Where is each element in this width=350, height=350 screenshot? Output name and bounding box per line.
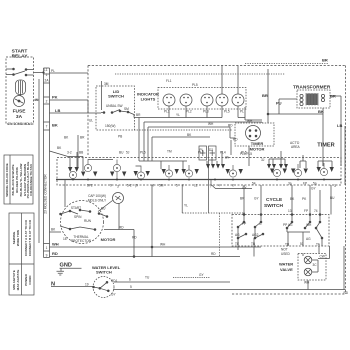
svg-text:TU: TU: [145, 276, 150, 280]
svg-text:74: 74: [314, 209, 318, 213]
svg-text:CORD: CORD: [28, 275, 32, 285]
svg-text:2A: 2A: [45, 79, 50, 83]
svg-text:GY: GY: [199, 273, 204, 277]
svg-text:L1: L1: [44, 68, 48, 72]
svg-text:BK: BK: [64, 136, 69, 140]
svg-text:USED: USED: [281, 252, 291, 256]
svg-text:UL: UL: [89, 119, 93, 123]
svg-text:RELAY: RELAY: [12, 54, 29, 60]
svg-text:WIRING COLOR CODE: WIRING COLOR CODE: [5, 163, 9, 196]
svg-text:RUN: RUN: [84, 219, 92, 223]
svg-text:SPIN: SPIN: [74, 215, 82, 219]
svg-text:3-2: 3-2: [67, 151, 72, 155]
svg-text:MDLS ONLY: MDLS ONLY: [88, 199, 107, 203]
svg-text:OR-ORANGE TN-TAN: OR-ORANGE TN-TAN: [29, 164, 33, 196]
svg-text:RD: RD: [211, 252, 216, 256]
svg-text:7: 7: [46, 125, 48, 129]
svg-text:PL: PL: [240, 110, 244, 114]
svg-text:N: N: [51, 282, 55, 288]
svg-text:PL5: PL5: [224, 110, 230, 114]
svg-text:3M: 3M: [104, 82, 109, 86]
svg-text:RD: RD: [119, 226, 124, 230]
svg-text:WH: WH: [208, 122, 214, 126]
svg-text:AREA: AREA: [291, 145, 301, 149]
svg-text:BR: BR: [240, 197, 245, 201]
svg-text:WATER: WATER: [279, 262, 293, 267]
svg-text:3a: 3a: [288, 182, 292, 186]
svg-text:PK: PK: [52, 95, 58, 100]
svg-text:MOTOR: MOTOR: [101, 237, 116, 242]
svg-text:WH: WH: [247, 119, 253, 123]
svg-text:BK: BK: [187, 133, 192, 137]
svg-text:GY: GY: [254, 197, 259, 201]
svg-text:FP: FP: [303, 182, 307, 186]
svg-text:MOTOR: MOTOR: [250, 147, 265, 152]
svg-text:GY: GY: [111, 293, 116, 297]
svg-text:PL: PL: [51, 69, 55, 73]
svg-text:3P2: 3P2: [87, 184, 93, 188]
svg-text:BR: BR: [262, 93, 268, 98]
svg-text:BR: BR: [322, 58, 328, 63]
svg-text:FP: FP: [304, 209, 308, 213]
svg-text:PL2: PL2: [186, 110, 192, 114]
svg-text:1: 1: [46, 73, 48, 77]
svg-text:13: 13: [288, 209, 292, 213]
svg-text:AG: AG: [306, 237, 311, 241]
svg-text:CONNECT B 9 AT TO CO: CONNECT B 9 AT TO CO: [28, 219, 32, 256]
svg-text:150(W): 150(W): [105, 124, 115, 128]
svg-text:3: 3: [117, 185, 119, 189]
svg-text:BB: BB: [79, 151, 83, 155]
svg-text:BR: BR: [330, 94, 336, 99]
svg-text:PL5: PL5: [241, 151, 247, 155]
svg-text:Y: Y: [182, 184, 185, 188]
svg-text:3C: 3C: [313, 263, 318, 267]
svg-text:51: 51: [300, 242, 304, 246]
svg-text:SWITCH: SWITCH: [96, 270, 112, 275]
svg-text:WIRE TOW: WIRE TOW: [16, 230, 20, 246]
svg-text:GND: GND: [60, 263, 72, 269]
svg-text:W: W: [35, 98, 38, 102]
svg-text:RD: RD: [344, 291, 349, 295]
svg-text:TE: TE: [235, 242, 239, 246]
svg-text:YL: YL: [184, 204, 188, 208]
svg-text:CAP 100(W): CAP 100(W): [88, 194, 106, 198]
svg-text:SM: SM: [124, 107, 129, 111]
svg-text:5: 5: [176, 184, 178, 188]
svg-text:FUSE: FUSE: [13, 109, 27, 115]
svg-text:SWITCH: SWITCH: [108, 94, 124, 99]
svg-text:LIGHTS: LIGHTS: [141, 97, 156, 102]
svg-text:9: 9: [46, 254, 48, 258]
svg-text:AG2: AG2: [252, 233, 259, 237]
svg-text:5-2: 5-2: [127, 184, 132, 188]
svg-text:WH: WH: [160, 243, 166, 247]
svg-text:WH: WH: [304, 281, 310, 285]
svg-text:PB: PB: [118, 135, 122, 139]
svg-text:BU: BU: [101, 207, 106, 211]
svg-text:18: 18: [63, 237, 67, 241]
svg-text:NOT: NOT: [281, 248, 288, 252]
svg-text:L2: L2: [194, 184, 198, 188]
svg-text:YL: YL: [176, 113, 180, 117]
svg-text:PL3: PL3: [203, 110, 209, 114]
svg-text:START: START: [71, 206, 81, 210]
svg-text:ON SOME MDLS: ON SOME MDLS: [8, 122, 33, 126]
svg-text:K: K: [152, 184, 155, 188]
svg-text:PL4: PL4: [220, 151, 226, 155]
svg-text:7: 7: [210, 185, 212, 189]
svg-text:CYCLE: CYCLE: [266, 197, 283, 203]
svg-text:RD: RD: [52, 251, 58, 256]
svg-text:9: 9: [110, 184, 112, 188]
svg-text:PP AG: PP AG: [283, 223, 293, 227]
svg-text:2: 2: [46, 100, 48, 104]
svg-text:D2: D2: [209, 148, 213, 152]
svg-text:GY: GY: [242, 186, 247, 190]
svg-text:(9: (9: [135, 184, 138, 188]
svg-text:BR: BR: [136, 113, 141, 117]
svg-text:TB: TB: [285, 243, 289, 247]
svg-text:LB: LB: [55, 108, 60, 113]
svg-text:BU: BU: [330, 196, 335, 200]
svg-text:RD: RD: [132, 236, 137, 240]
svg-text:PL5: PL5: [140, 151, 146, 155]
svg-text:TB: TB: [251, 242, 255, 246]
svg-text:PU: PU: [276, 101, 282, 106]
svg-text:54: 54: [252, 182, 256, 186]
svg-text:TIMER: TIMER: [317, 143, 334, 149]
svg-text:TIMER: TIMER: [251, 141, 264, 146]
svg-text:1: 1: [46, 246, 48, 250]
svg-text:CW: CW: [320, 255, 325, 259]
svg-text:TA: TA: [316, 243, 321, 247]
svg-text:BK: BK: [290, 197, 295, 201]
svg-text:RD: RD: [228, 124, 233, 128]
svg-text:UNBAL SW: UNBAL SW: [106, 104, 123, 108]
svg-text:RD1: RD1: [111, 279, 118, 283]
svg-text:LB: LB: [337, 123, 342, 128]
svg-text:PP: PP: [242, 222, 246, 226]
svg-text:RD: RD: [233, 138, 238, 142]
svg-text:AG: AG: [235, 233, 240, 237]
svg-text:5: 5: [130, 285, 132, 289]
svg-text:6: 6: [129, 278, 131, 282]
svg-text:MAX AGITATE: MAX AGITATE: [16, 270, 20, 291]
svg-text:VALVE: VALVE: [280, 267, 293, 272]
svg-text:PROTECTOR: PROTECTOR: [71, 239, 92, 243]
svg-text:WH: WH: [306, 223, 312, 227]
svg-text:BR: BR: [80, 136, 85, 140]
svg-text:3J: 3J: [261, 158, 265, 162]
svg-text:FL1: FL1: [166, 79, 172, 83]
svg-text:PL1: PL1: [164, 110, 170, 114]
svg-text:PL2: PL2: [198, 151, 204, 155]
svg-text:K: K: [232, 184, 235, 188]
svg-text:PL5: PL5: [192, 83, 198, 87]
svg-text:19: 19: [85, 283, 89, 287]
svg-text:GY: GY: [311, 187, 316, 191]
svg-text:5J: 5J: [126, 151, 130, 155]
svg-text:23 MOLDED CONNECTOR: 23 MOLDED CONNECTOR: [44, 174, 48, 214]
svg-text:TM: TM: [167, 150, 172, 154]
svg-text:3A: 3A: [16, 114, 23, 120]
svg-text:BK: BK: [318, 109, 324, 114]
svg-text:BK: BK: [57, 146, 62, 150]
svg-text:SWITCH: SWITCH: [264, 203, 283, 209]
svg-text:4: 4: [218, 184, 220, 188]
svg-text:BK: BK: [51, 228, 56, 232]
svg-text:3: 3: [334, 184, 336, 188]
svg-text:BK: BK: [52, 123, 58, 128]
svg-text:5a: 5a: [313, 182, 317, 186]
svg-text:WH: WH: [52, 242, 59, 247]
svg-text:PK: PK: [302, 197, 307, 201]
svg-text:5M: 5M: [159, 184, 164, 188]
svg-text:TRANSFORMER: TRANSFORMER: [293, 85, 331, 91]
svg-text:BU: BU: [119, 151, 124, 155]
